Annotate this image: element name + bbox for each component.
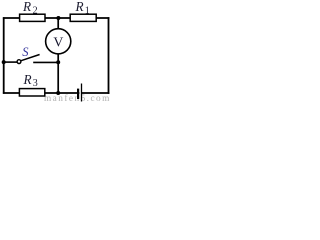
- junction dot middle (switch wire meets voltmeter branch): [56, 60, 60, 64]
- svg-text:3: 3: [33, 78, 38, 89]
- wire middle left (switch branch): [4, 61, 18, 63]
- wire middle right (switch to voltmeter branch): [33, 61, 58, 63]
- svg-text:V: V: [53, 35, 63, 50]
- voltmeter U1 circle: [46, 29, 71, 54]
- svg-text:S: S: [22, 45, 29, 59]
- wire top: [3, 17, 110, 19]
- svg-text:R: R: [75, 0, 84, 14]
- resistor R1: [70, 14, 96, 21]
- switch S blade: [21, 55, 40, 61]
- junction dot bottom (voltmeter branch meets bottom wire): [56, 91, 60, 95]
- battery short plate (negative): [77, 89, 79, 99]
- switch S pivot circle: [17, 60, 21, 64]
- svg-text:2: 2: [33, 5, 38, 16]
- wire bottom: [3, 92, 110, 94]
- junction dot left (switch branch on left wire): [2, 60, 6, 64]
- wire voltmeter branch vertical: [57, 18, 59, 93]
- svg-text:R: R: [23, 72, 32, 87]
- resistor R2: [20, 14, 45, 21]
- junction dot top (node between R2 and R1): [56, 16, 60, 20]
- svg-text:1: 1: [85, 5, 90, 16]
- wire right: [108, 17, 110, 94]
- wire left: [3, 17, 5, 94]
- background: [0, 0, 112, 102]
- resistor R3: [19, 89, 44, 96]
- battery long plate (positive): [81, 84, 83, 102]
- battery cell gap: [79, 92, 81, 95]
- svg-text:R: R: [22, 0, 31, 14]
